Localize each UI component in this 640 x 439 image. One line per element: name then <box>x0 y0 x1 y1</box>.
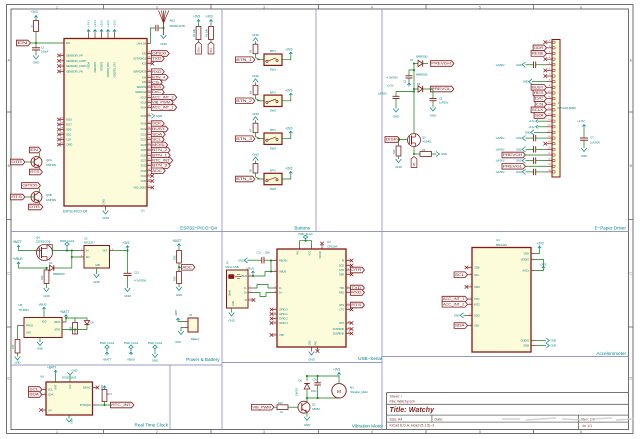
svg-text:GND: GND <box>238 258 244 262</box>
svg-text:RXD: RXD <box>339 292 344 295</box>
wire R6 to node <box>256 95 261 101</box>
svg-text:VBUS: VBUS <box>39 303 47 307</box>
svg-text:IO32: IO32 <box>141 164 147 168</box>
wire +3V3 to R3 <box>210 23 212 27</box>
svg-text:PWR_FLAG: PWR_FLAG <box>298 232 312 236</box>
svg-text:R2 10K: R2 10K <box>192 28 196 37</box>
svg-text:S8050: S8050 <box>312 407 320 411</box>
svg-text:GND: GND <box>176 293 183 297</box>
ground (C4) <box>393 109 399 113</box>
svg-text:IO26: IO26 <box>141 153 147 157</box>
svg-text:30: 30 <box>61 133 63 135</box>
svg-text:GND: GND <box>228 319 235 323</box>
wire LNA_IN to antenna coupling <box>151 28 156 44</box>
svg-text:PREVGL: PREVGL <box>503 164 523 168</box>
svg-text:IN: IN <box>86 249 89 253</box>
wire BTN_1 to switch <box>257 59 264 61</box>
svg-text:GND: GND <box>71 419 74 424</box>
svg-text:R3 10K: R3 10K <box>205 28 209 37</box>
svg-text:VDD: VDD <box>42 322 47 324</box>
svg-text:GND: GND <box>393 115 400 119</box>
svg-text:IO13: IO13 <box>141 101 147 105</box>
pin IO17 (NC) <box>60 124 64 126</box>
svg-text:SW3: SW3 <box>270 147 277 151</box>
svg-text:GND: GND <box>43 294 50 298</box>
ground (C5) <box>430 108 436 112</box>
wire Q4 drain to U2 <box>53 245 81 251</box>
global label BTN_1 <box>236 57 255 63</box>
svg-text:IO0: IO0 <box>142 52 147 56</box>
svg-text:29: 29 <box>148 85 150 87</box>
svg-text:C20: C20 <box>313 377 318 381</box>
svg-text:RI: RI <box>342 260 345 263</box>
pin IO22 <box>147 139 151 141</box>
wire REGIN-VBUS tap <box>270 261 272 272</box>
svg-text:VDD: VDD <box>523 252 529 256</box>
svg-text:4.7uF/50V: 4.7uF/50V <box>387 76 399 80</box>
svg-text:BUSY: BUSY <box>532 85 545 89</box>
svg-text:VDD3P3: VDD3P3 <box>100 61 104 71</box>
pin IO12 <box>147 96 151 98</box>
svg-text:+3V3: +3V3 <box>113 20 117 27</box>
pin VDD3P3 +3V3 <box>101 33 103 39</box>
svg-text:VIB_PWM: VIB_PWM <box>252 405 271 409</box>
wire VBUS J2 to U3 <box>253 272 273 277</box>
pin IO0 <box>147 53 151 55</box>
svg-text:+3V3: +3V3 <box>285 89 292 93</box>
svg-text:RST: RST <box>339 322 344 325</box>
svg-text:5: 5 <box>479 430 481 434</box>
svg-text:31: 31 <box>61 138 63 140</box>
svg-text:1uF/50V: 1uF/50V <box>496 147 505 151</box>
svg-text:GND: GND <box>152 359 159 363</box>
svg-text:GND: GND <box>124 294 131 298</box>
svg-text:SDx: SDx <box>474 324 480 328</box>
svg-text:E−Paper Driver: E−Paper Driver <box>594 226 626 231</box>
capacitor C1 <box>35 43 37 48</box>
svg-text:GND: GND <box>525 130 531 134</box>
wire DTR to Q2A base <box>25 161 34 163</box>
svg-text:CSB: CSB <box>474 266 480 270</box>
pin GND (U4) <box>531 345 536 347</box>
global label RESE (J1 pin 3) <box>531 51 546 57</box>
capacitor (J1 pin 5) <box>526 64 534 66</box>
pin 11 (J1) <box>547 98 553 100</box>
svg-text:3: 3 <box>263 430 265 434</box>
pin IO26 <box>147 154 151 156</box>
ground (J1 pin 5) <box>522 62 525 67</box>
svg-text:41: 41 <box>148 154 150 156</box>
global label CS (J1 pin 12) <box>535 101 546 107</box>
USB logo (J2) <box>228 274 234 279</box>
wire VBUS to D4 <box>19 265 49 268</box>
svg-text:CP2104: CP2104 <box>327 245 337 249</box>
resistor R2 <box>196 27 201 40</box>
pin LNA_IN <box>147 43 151 45</box>
ground (U4 GNDIO) <box>536 340 547 342</box>
svg-text:ACC_INT_1: ACC_INT_1 <box>152 106 174 110</box>
pin VIO (U3) <box>299 245 301 250</box>
svg-text:+BATT: +BATT <box>13 240 22 244</box>
pin SDO (U4) <box>468 314 473 316</box>
wire U2 OUT to +3V3 <box>114 250 128 252</box>
svg-text:+3V3: +3V3 <box>100 20 104 27</box>
svg-text:U3: U3 <box>327 240 331 244</box>
global label ACC_INT_1 (U4) <box>442 296 467 302</box>
ground (J1 pin 17) <box>534 131 547 133</box>
svg-text:2: 2 <box>250 290 251 292</box>
svg-text:GND: GND <box>304 423 311 427</box>
junction EN node <box>35 42 37 44</box>
svg-text:ACC_INT_2: ACC_INT_2 <box>443 302 465 306</box>
pin VPP (U3) <box>273 334 278 336</box>
resistor R18 (divider top) <box>178 247 180 250</box>
global label PREVGL <box>431 86 454 92</box>
svg-text:4.7uF/50V: 4.7uF/50V <box>134 279 146 283</box>
svg-text:DSR: DSR <box>339 274 344 277</box>
svg-text:+BATT: +BATT <box>103 358 112 362</box>
svg-text:MBR0530: MBR0530 <box>53 272 65 276</box>
wire EN to Q2A collector <box>38 153 40 158</box>
svg-text:+3V3: +3V3 <box>540 262 547 266</box>
svg-text:BTN_4: BTN_4 <box>236 177 252 181</box>
pin 23 (J1) <box>547 165 553 167</box>
global label SDA <box>151 132 165 138</box>
svg-text:SDN: SDN <box>474 285 480 289</box>
global label SCL (U4) <box>454 272 467 278</box>
power +3.3V (J1 pin 16) <box>538 126 547 128</box>
pin CLK (NC) <box>60 139 64 141</box>
pin VDD_SDIO <box>147 187 151 189</box>
svg-text:SD2/IO9: SD2/IO9 <box>137 85 147 89</box>
svg-text:SENSOR_CAPP: SENSOR_CAPP <box>66 59 86 63</box>
PWR_FLAG VBUS <box>130 348 132 352</box>
svg-text:R14: R14 <box>40 275 44 280</box>
PWR_FLAG (U3) <box>305 238 307 242</box>
svg-text:2: 2 <box>156 5 158 9</box>
wire GPIO0 to Q2B collector <box>38 188 40 192</box>
no-connect J1 pin 1 <box>544 40 548 44</box>
title block <box>387 392 629 394</box>
svg-text:40: 40 <box>148 148 150 150</box>
svg-text:Micro USB: Micro USB <box>226 265 239 269</box>
global label BUSY <box>151 126 168 132</box>
svg-text:SD1: SD1 <box>66 133 72 137</box>
pin D&#8722; (U3) <box>273 287 278 289</box>
pin 22 (J1) <box>547 160 553 162</box>
svg-text:IO19: IO19 <box>141 127 147 131</box>
wire R5 to node <box>256 54 261 60</box>
pin INT2 (U4) <box>468 303 473 305</box>
transistor Q3 (MOSFET) <box>408 134 421 147</box>
svg-text:1K: 1K <box>280 410 283 414</box>
svg-text:GND: GND <box>516 159 522 163</box>
svg-text:U0TXD/IO1: U0TXD/IO1 <box>133 57 146 61</box>
pin VDDA +3V3 <box>88 33 90 39</box>
svg-text:47: 47 <box>148 186 150 188</box>
svg-text:BTN_1: BTN_1 <box>152 153 168 157</box>
svg-text:+3V3: +3V3 <box>285 126 292 130</box>
svg-text:RTS: RTS <box>30 170 39 174</box>
svg-text:BTN_3: BTN_3 <box>236 137 252 141</box>
svg-text:VBUS: VBUS <box>247 267 255 271</box>
global label RTC_INT <box>151 158 172 164</box>
svg-text:SENSOR_VP: SENSOR_VP <box>66 54 83 58</box>
power +3V3 (R3) <box>210 20 212 23</box>
global label TXD <box>151 56 164 62</box>
svg-text:+BATT: +BATT <box>47 366 56 370</box>
svg-text:AO3401: AO3401 <box>422 140 432 144</box>
pin IO23 <box>147 144 151 146</box>
svg-text:SW1: SW1 <box>270 68 277 72</box>
wire EN tap <box>72 251 80 258</box>
pin IO21 <box>147 133 151 135</box>
svg-text:SDI: SDI <box>535 114 544 118</box>
ground (button 3) <box>253 117 259 121</box>
svg-text:Power & Battery: Power & Battery <box>186 357 220 362</box>
ground (J1 pin 24) <box>522 169 525 174</box>
pin SDA (U8) <box>42 394 46 396</box>
svg-text:BTN_1: BTN_1 <box>236 58 252 62</box>
svg-text:USB−Serial: USB−Serial <box>358 356 382 361</box>
svg-text:CTS: CTS <box>339 309 344 312</box>
pin EN stub <box>60 42 64 44</box>
svg-text:GND: GND <box>516 170 522 174</box>
capacitor C3 <box>409 70 414 76</box>
svg-text:Vibration Motor: Vibration Motor <box>352 424 384 429</box>
power +3V3 (R2) <box>198 20 200 23</box>
switch SW4 <box>264 173 282 184</box>
svg-text:6: 6 <box>580 5 582 9</box>
svg-text:4: 4 <box>371 430 373 434</box>
svg-text:GNDIO: GNDIO <box>520 339 529 343</box>
pin VDDA3P3 +3V3 <box>94 33 96 39</box>
svg-text:CLK: CLK <box>66 138 71 142</box>
pin SENSOR_VN (NC) <box>60 70 64 72</box>
svg-text:VCC: VCC <box>70 384 72 389</box>
svg-text:IO25: IO25 <box>141 148 147 152</box>
svg-text:VDDA: VDDA <box>87 62 91 69</box>
svg-text:SI2301CDS: SI2301CDS <box>36 240 50 244</box>
svg-text:RXD: RXD <box>152 70 162 74</box>
svg-text:BTN_2: BTN_2 <box>152 148 168 152</box>
svg-text:GND: GND <box>72 369 78 373</box>
svg-text:VBAT: VBAT <box>54 320 61 324</box>
svg-text:PWR_FLAG: PWR_FLAG <box>100 341 114 345</box>
svg-text:26: 26 <box>148 70 150 72</box>
svg-text:GND: GND <box>516 63 522 67</box>
svg-text:28: 28 <box>148 80 150 82</box>
svg-text:VDD3P3_RTC: VDD3P3_RTC <box>106 62 110 78</box>
svg-text:RTS: RTS <box>339 304 344 307</box>
svg-text:SDA: SDA <box>152 133 164 137</box>
global label GPIO0 (Q2B) <box>22 183 41 189</box>
svg-text:INT2: INT2 <box>474 302 480 306</box>
pin SD1 (NC) <box>60 134 64 136</box>
svg-text:IO2: IO2 <box>142 62 147 66</box>
svg-text:IO17: IO17 <box>66 123 72 127</box>
global label TXD (U3) <box>351 285 365 291</box>
svg-text:SENSOR_CAPN: SENSOR_CAPN <box>66 64 86 68</box>
pin GPIO.0 (U3) <box>273 309 278 311</box>
ground (C7) <box>581 148 587 152</box>
svg-text:ACC_INT_1: ACC_INT_1 <box>443 297 465 301</box>
svg-text:VPP: VPP <box>279 333 284 337</box>
svg-text:SW2: SW2 <box>270 109 277 113</box>
svg-text:MBR0530: MBR0530 <box>416 73 428 77</box>
svg-text:RTS: RTS <box>11 195 22 199</box>
svg-text:IO34: IO34 <box>141 174 147 178</box>
junction D2 anode <box>413 63 415 65</box>
svg-text:1N4001: 1N4001 <box>296 387 299 396</box>
pin IO13 <box>147 102 151 104</box>
svg-text:32: 32 <box>148 101 150 103</box>
wire gnd to R7 <box>255 120 257 123</box>
wire R8 to node <box>256 173 261 179</box>
svg-text:GND: GND <box>581 154 588 158</box>
svg-text:GPIO.0: GPIO.0 <box>279 308 288 312</box>
svg-text:ESP32−PICO−D4: ESP32−PICO−D4 <box>63 210 88 214</box>
junction (EN tap) <box>71 250 73 252</box>
svg-text:2: 2 <box>156 430 158 434</box>
no-connect J1 pin 4 <box>544 57 548 61</box>
svg-text:DTR: DTR <box>11 160 23 164</box>
svg-text:INT/SQW: INT/SQW <box>80 403 91 407</box>
resistor R19 (divider bottom) <box>177 272 182 284</box>
wire C1 to ground <box>35 50 37 56</box>
power +3.3V (J1 pin 15) <box>538 120 547 122</box>
svg-text:J2: J2 <box>226 260 229 264</box>
wire gate <box>400 139 408 141</box>
svg-text:100n: 100n <box>265 250 271 254</box>
wire R2 to label <box>198 40 200 43</box>
svg-text:31: 31 <box>148 96 150 98</box>
svg-text:1uF/50V: 1uF/50V <box>439 101 449 105</box>
pin VBUS (U3) <box>273 271 278 273</box>
svg-text:PWR_FLAG: PWR_FLAG <box>124 341 138 345</box>
wire +BATT to Q4 <box>19 249 37 251</box>
pin 16 (J1) <box>547 126 553 128</box>
svg-text:CS: CS <box>536 102 544 106</box>
svg-text:1uF/50V: 1uF/50V <box>378 92 388 96</box>
svg-text:GND: GND <box>102 199 106 205</box>
svg-text:TXD: TXD <box>152 57 162 61</box>
svg-text:File: Watchy.sch: File: Watchy.sch <box>390 400 415 404</box>
svg-text:DISP: DISP <box>386 138 397 142</box>
svg-text:GPIO.3: GPIO.3 <box>279 321 288 325</box>
svg-text:Accelerometer: Accelerometer <box>596 351 626 356</box>
svg-text:45: 45 <box>148 174 150 176</box>
svg-text:BTN_4: BTN_4 <box>152 75 165 79</box>
svg-text:CS: CS <box>152 80 159 84</box>
wire R7 to node <box>256 133 261 139</box>
PWR_FLAG +BATT <box>106 348 108 352</box>
pin SENSOR_CAPP (NC) <box>60 60 64 62</box>
svg-text:33: 33 <box>148 106 150 108</box>
svg-text:GND: GND <box>252 74 259 78</box>
global label BTN_4 <box>151 75 168 81</box>
connector J1 body <box>552 40 560 178</box>
svg-text:RES: RES <box>152 85 161 89</box>
pin VDD (U3) <box>311 245 313 250</box>
wire PROG to R15 <box>18 325 25 327</box>
svg-text:SD3/IO10: SD3/IO10 <box>135 90 146 94</box>
ground (J2 shield) <box>231 308 233 313</box>
ground (button 1) <box>253 38 259 42</box>
svg-text:VSS: VSS <box>26 331 31 335</box>
resistor R13 <box>277 405 288 410</box>
global label D/C <box>151 89 164 95</box>
svg-text:25: 25 <box>148 62 150 64</box>
svg-text:U5: U5 <box>19 303 23 307</box>
svg-text:+3V3: +3V3 <box>285 167 292 171</box>
svg-text:IO16: IO16 <box>66 118 72 122</box>
svg-text:PWR_FLAG: PWR_FLAG <box>148 341 162 345</box>
svg-text:EN: EN <box>66 41 70 45</box>
pin DSR (U3) <box>346 274 351 276</box>
svg-text:+3.9V: +3.9V <box>577 119 586 123</box>
svg-text:IO27: IO27 <box>141 158 147 162</box>
power +BATT (U5) <box>65 315 67 318</box>
global label DISP (gate) <box>385 137 400 143</box>
pin REGIN (U3) <box>273 260 278 262</box>
power +3V3 (motor) <box>338 372 340 375</box>
pin CSB (U4) <box>468 267 473 269</box>
svg-text:VIT: VIT <box>48 408 52 412</box>
svg-text:LNA_IN: LNA_IN <box>137 42 146 46</box>
svg-text:PREVGL: PREVGL <box>431 87 451 91</box>
svg-text:R13: R13 <box>278 401 283 405</box>
svg-text:GND: GND <box>516 136 522 140</box>
svg-text:30: 30 <box>148 90 150 92</box>
global label RES (J1 pin 10) <box>533 90 546 96</box>
svg-text:RTC_INT: RTC_INT <box>111 403 131 407</box>
pin VDDIO (U4) <box>531 259 536 261</box>
svg-text:100n: 100n <box>311 389 317 393</box>
wire boost node vertical <box>413 64 415 134</box>
svg-text:GND: GND <box>551 339 557 343</box>
svg-text:IO5: IO5 <box>142 80 147 84</box>
ground (C12) <box>125 288 131 292</box>
svg-text:IO21: IO21 <box>141 132 147 136</box>
pin RXD (U3) <box>346 292 351 294</box>
global label ACC_INT_2 <box>151 95 176 101</box>
svg-text:GPIO0: GPIO0 <box>22 184 38 188</box>
svg-text:Buttons: Buttons <box>294 226 310 231</box>
svg-text:IO18: IO18 <box>141 122 147 126</box>
svg-text:RESE: RESE <box>532 52 544 56</box>
global label BTN_1 <box>151 153 170 159</box>
resistor R5 <box>253 44 258 54</box>
svg-text:GND: GND <box>37 347 43 351</box>
svg-text:GND: GND <box>308 357 315 361</box>
svg-text:5: 5 <box>479 5 481 9</box>
svg-text:STAT: STAT <box>54 328 60 332</box>
global label ADC (divider) <box>178 263 180 272</box>
wire VIO/VDD to flag <box>300 241 312 245</box>
diode D2 <box>414 63 418 65</box>
pin 3 (J1) <box>547 52 553 54</box>
svg-text:MBR0530: MBR0530 <box>416 55 428 59</box>
capacitor (J1 pin 22) <box>526 160 534 162</box>
pin IO34 <box>147 175 151 177</box>
svg-text:GND: GND <box>454 314 460 318</box>
global label BUSY (J1 pin 9) <box>531 85 546 91</box>
svg-text:GND: GND <box>102 216 109 220</box>
svg-text:SCL: SCL <box>455 273 465 277</box>
global label BTN_2 <box>236 98 255 104</box>
svg-text:IO35: IO35 <box>141 179 147 183</box>
